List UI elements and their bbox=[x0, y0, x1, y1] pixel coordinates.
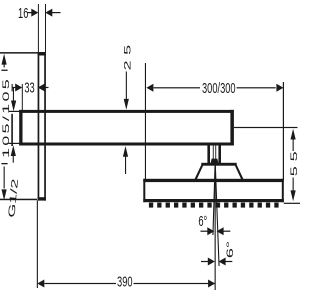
dim 105/105 upper arrow bbox=[2, 54, 7, 65]
dim 33 left tick and arrow bbox=[12, 84, 13, 91]
svg-text:5: 5 bbox=[122, 45, 132, 55]
shower arm bottom line bbox=[19, 143, 234, 146]
dim 300/300 right extension line bbox=[283, 82, 284, 180]
connector stem left wall bbox=[207, 146, 210, 164]
connector stem right wall bbox=[218, 146, 221, 164]
tilted 6 degree line left bbox=[212, 165, 215, 235]
svg-text:2: 2 bbox=[122, 60, 132, 70]
svg-text:105/105: 105/105 bbox=[1, 77, 11, 158]
svg-text:300/300: 300/300 bbox=[202, 80, 236, 97]
svg-text:33: 33 bbox=[24, 79, 34, 96]
svg-text:6°: 6° bbox=[198, 213, 207, 230]
svg-text:6°: 6° bbox=[225, 241, 235, 258]
dim 16 left extension line bbox=[38, 4, 39, 52]
cone left slant bbox=[194, 165, 204, 182]
cone top cap bbox=[201, 163, 236, 166]
dim 16 right extension line bbox=[45, 4, 46, 52]
dim 390 left extension line bbox=[37, 201, 38, 289]
tilted 6 degree line right bbox=[215, 161, 220, 266]
shower head disc left edge bbox=[143, 179, 145, 202]
wall line bottom bbox=[0, 199, 37, 201]
angle arrows pair 2 bbox=[201, 261, 208, 262]
dim line B upper down-arrow bbox=[13, 88, 14, 101]
stem inner tube line right bbox=[214, 146, 217, 161]
svg-text:5: 5 bbox=[289, 166, 299, 176]
dim 390 line with arrows bbox=[37, 280, 44, 288]
svg-text:G1/2: G1/2 bbox=[7, 178, 21, 218]
shower head disc bottom bbox=[143, 199, 283, 202]
dim 55 lower arrow bbox=[293, 178, 294, 192]
dim 25 up arrow bbox=[123, 146, 128, 157]
dim 33 extension line bbox=[22, 84, 23, 111]
dim 55 upper arrow bbox=[291, 129, 296, 140]
inlet connector left edge bbox=[19, 110, 22, 146]
dim 300/300 left extension line bbox=[145, 63, 146, 180]
escutcheon plate top cap bbox=[38, 52, 46, 56]
arm centerline extension to right bbox=[234, 127, 298, 128]
inlet pipe end line bbox=[11, 114, 13, 146]
shower head disc top bbox=[143, 179, 283, 182]
shower head disc right edge bbox=[282, 179, 284, 202]
dim 16 left arrow bbox=[31, 9, 38, 17]
angle arrows pair 1 bbox=[201, 231, 208, 232]
dim 16 right arrow bbox=[45, 9, 52, 17]
vertical centerline below head bbox=[215, 164, 216, 291]
arm bottom extension line to left bbox=[9, 143, 20, 144]
escutcheon plate right edge bbox=[44, 52, 46, 201]
escutcheon plate left edge bbox=[38, 52, 40, 201]
ball joint nut bbox=[211, 159, 219, 164]
dim 33 right arrow bbox=[38, 84, 45, 92]
dim 300/300 line with arrows bbox=[146, 84, 153, 92]
stem inner tube line left bbox=[212, 146, 215, 161]
dim line B lower up-arrow bbox=[11, 145, 16, 156]
svg-text:5: 5 bbox=[289, 151, 299, 161]
nozzle row bbox=[149, 203, 279, 208]
shower arm end cap bbox=[230, 110, 234, 146]
disc bottom extension line right bbox=[284, 203, 300, 204]
cone right slant bbox=[234, 165, 244, 182]
shower arm top line bbox=[19, 110, 234, 113]
svg-text:16: 16 bbox=[18, 5, 28, 22]
escutcheon plate bottom cap bbox=[38, 197, 46, 200]
svg-text:390: 390 bbox=[117, 273, 133, 290]
arm top extension line to left bbox=[9, 111, 20, 112]
wall line top bbox=[0, 52, 38, 54]
dim 105/105 lower dash and arrow bbox=[1, 163, 7, 164]
dim 25 down arrow bbox=[126, 72, 127, 101]
